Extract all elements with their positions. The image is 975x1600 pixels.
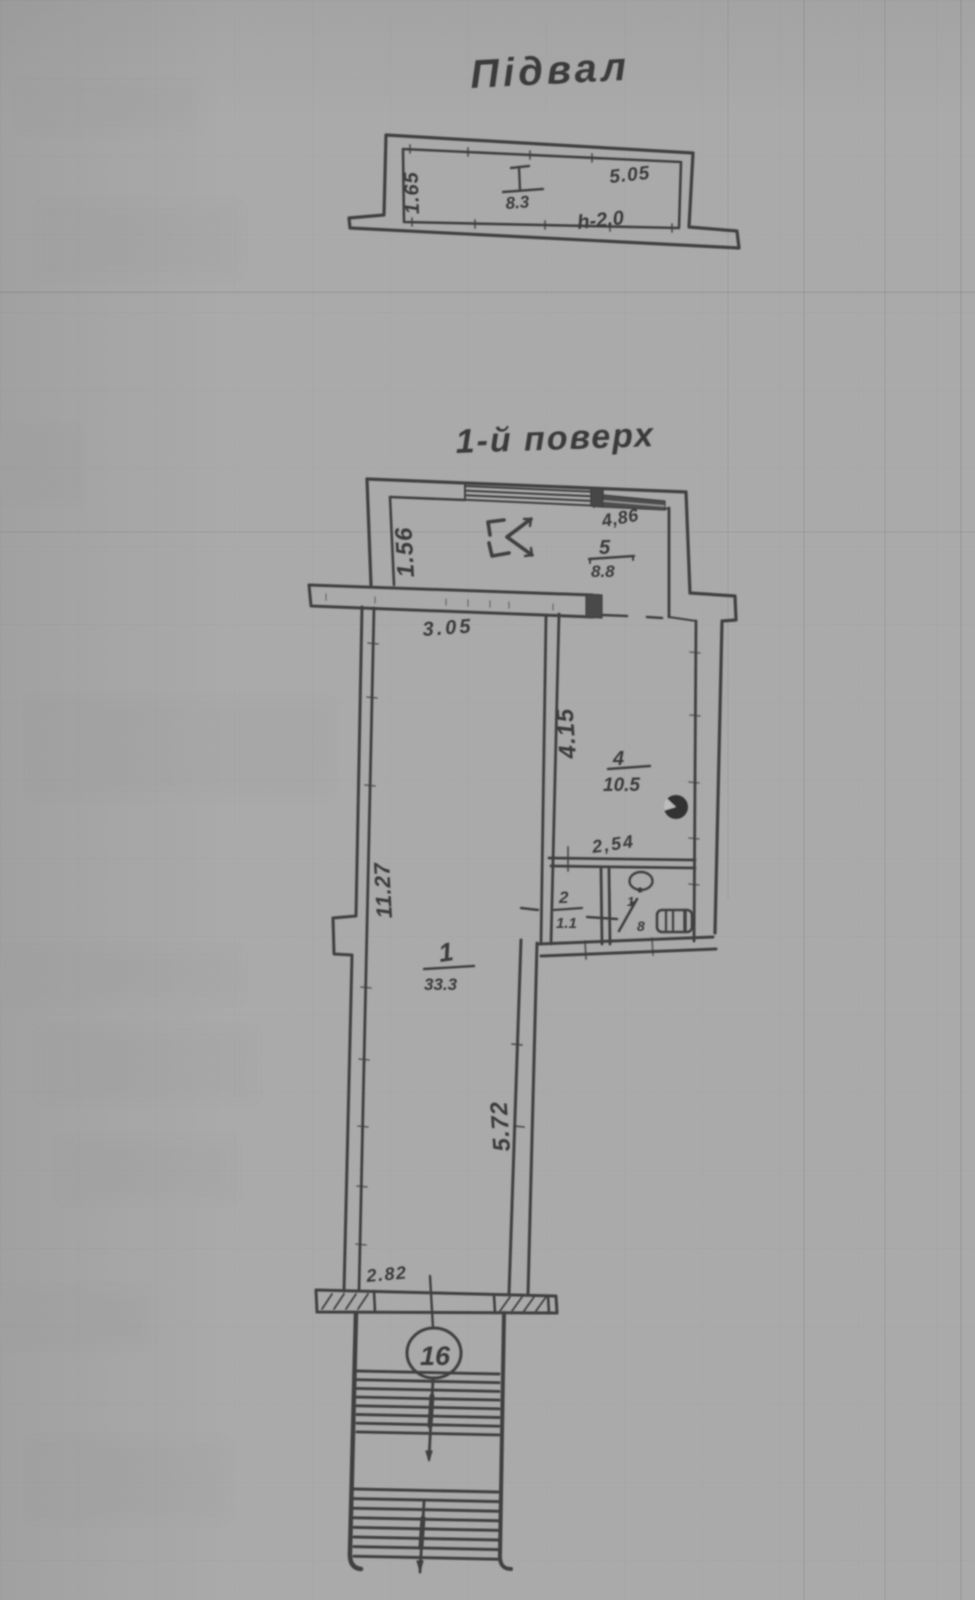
ff top window band (hatched) (465, 486, 594, 492)
paper shading left edge (0, 0, 230, 1600)
ticks on bottom wall (585, 941, 586, 959)
hatch/opening symbol (crossed arrows) (488, 520, 504, 535)
svg-text:8.8: 8.8 (591, 562, 615, 581)
left outer wall lower with pilaster jog (333, 607, 362, 1291)
platform dividers (374, 1291, 375, 1312)
leader line to stair circle (430, 1276, 433, 1328)
left stair stringer (350, 1313, 361, 1569)
ghost bleed-through marks (0, 85, 330, 1520)
svg-text:4: 4 (612, 748, 624, 770)
svg-text:1-й поверх: 1-й поверх (455, 416, 656, 461)
svg-text:2.82: 2.82 (365, 1262, 409, 1286)
basement outer wall outline with side flanges (349, 135, 739, 248)
svg-text:8: 8 (637, 918, 645, 934)
stair flight 2 treads (354, 1489, 498, 1492)
svg-text:1.65: 1.65 (401, 171, 424, 215)
svg-text:5: 5 (599, 537, 611, 559)
paper shading top edge (0, 0, 975, 120)
basement inner wall rectangle (403, 149, 681, 228)
right outer wall with step (690, 593, 736, 933)
svg-text:5.72: 5.72 (486, 1100, 516, 1152)
svg-text:33.3: 33.3 (424, 975, 458, 994)
svg-text:4.15: 4.15 (552, 707, 583, 760)
stair number circle 16 (407, 1328, 461, 1378)
svg-text:16: 16 (420, 1341, 451, 1371)
stair flight 1 treads (357, 1371, 499, 1374)
door dash room1-room2 (521, 908, 538, 910)
central wall room1|room4 (541, 616, 546, 944)
tick on 2.54 wall (567, 847, 569, 871)
ff inner top wall line (left of window) (390, 497, 465, 500)
vent pipe (filled circle) (664, 795, 688, 819)
basement wall survey ticks (top wall) (409, 145, 411, 153)
balcony slab dark right cap (586, 594, 602, 618)
svg-text:11.27: 11.27 (369, 861, 397, 919)
svg-text:5.05: 5.05 (608, 163, 651, 188)
divider wall room2|room3 (601, 869, 602, 944)
room1 lower right wall (509, 940, 521, 1294)
stair direction arrow 1 (429, 1379, 433, 1459)
toilet symbol (657, 910, 692, 932)
basement room label I / 8.3 (511, 166, 529, 168)
ff left outer wall (upper room) (367, 479, 371, 585)
svg-text:2: 2 (558, 888, 569, 907)
sink (circle with dot) in room 3 (630, 872, 653, 890)
ff left inner wall (upper room) (390, 497, 394, 585)
door opening dashes (room 5 to room 4) (602, 615, 627, 616)
right inner wall (room 4) (694, 621, 696, 941)
ff outer top wall line (367, 479, 686, 492)
balcony slab band (309, 585, 593, 617)
wall room4 | toilets (549, 858, 695, 860)
right wall ticks (690, 652, 700, 653)
balcony slab tick marks (325, 594, 327, 600)
svg-text:10.5: 10.5 (603, 775, 640, 796)
door dash room2-room3 (587, 917, 617, 919)
entrance platform slab (316, 1290, 557, 1313)
crease lines (0, 291, 975, 294)
left inner wall lower (359, 608, 374, 1291)
ff top wall pier (dark) (591, 488, 603, 507)
ff window band end caps (464, 485, 466, 500)
svg-text:8.3: 8.3 (505, 192, 530, 213)
ff second window (dark band) (603, 495, 665, 510)
ticks lower right wall (512, 1044, 522, 1045)
ff right inner wall (room 5) (668, 508, 671, 617)
basement wall survey ticks (bottom wall) (411, 218, 413, 226)
stair direction arrow 2 (420, 1502, 424, 1572)
platform hatch right (500, 1297, 510, 1311)
right stair stringer (500, 1313, 511, 1569)
svg-text:3.05: 3.05 (422, 615, 474, 640)
svg-text:Підвал: Підвал (469, 45, 631, 97)
svg-text:1.56: 1.56 (390, 526, 420, 578)
svg-text:1.1: 1.1 (556, 915, 577, 932)
platform hatch left (322, 1294, 332, 1309)
ff right outer wall (room 5) (686, 492, 690, 593)
bottom wall of toilets / outer wall (539, 937, 713, 944)
ticks left wall (368, 643, 378, 644)
